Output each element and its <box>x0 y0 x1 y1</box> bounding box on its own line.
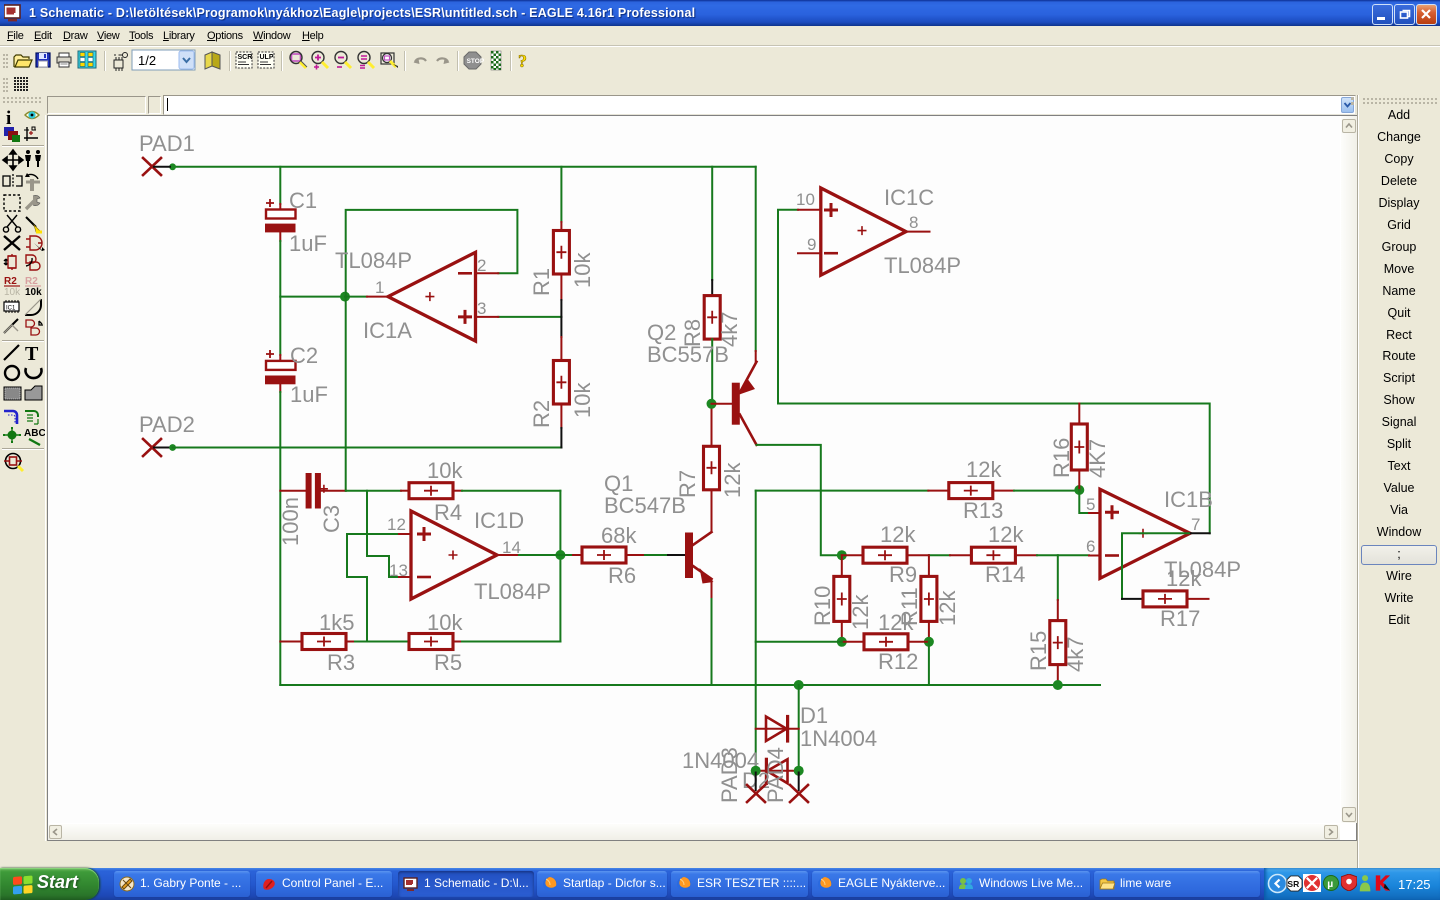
svg-text:3: 3 <box>477 299 486 318</box>
svg-text:12k: 12k <box>988 522 1024 547</box>
resistor R2 <box>529 361 595 429</box>
wire pin3 net to R1/R2 <box>477 316 562 318</box>
svg-text:R16: R16 <box>1049 438 1074 478</box>
op-amp IC1B (points right) <box>1086 487 1241 582</box>
wire Q1 emitter to bottom rail <box>711 579 713 685</box>
svg-text:µ: µ <box>1327 879 1333 890</box>
wire Q2 emitter drop from top rail <box>755 167 757 362</box>
wire R15 top lead <box>1057 555 1059 620</box>
row12: wire / text <box>4 345 19 360</box>
node D1 top junction <box>794 680 804 690</box>
row7: delete / add <box>4 236 20 250</box>
op-amp IC1A (points left) <box>335 248 486 343</box>
wire R8 bottom to junction <box>711 339 713 404</box>
op-amp IC1C (points right) <box>796 185 961 278</box>
zoom in <box>312 52 328 70</box>
svg-text:R5: R5 <box>434 650 462 675</box>
wire pin1 stub <box>345 296 387 298</box>
open folder <box>14 55 32 67</box>
CAM film <box>78 51 96 68</box>
wire pin1 node down to C3 row <box>345 297 347 491</box>
wire IC1A pin1 node horizontal <box>280 296 344 298</box>
save floppy <box>36 53 50 67</box>
svg-text:10k: 10k <box>570 382 595 418</box>
svg-text:R2: R2 <box>529 400 554 428</box>
printer <box>57 53 71 67</box>
checkered flag <box>491 51 501 70</box>
wire R16 bottom to junction <box>1078 470 1080 490</box>
node D2 left junction <box>751 766 761 776</box>
wire R13 right to R16 junction <box>993 490 1080 492</box>
svg-text:R15: R15 <box>1026 631 1051 671</box>
wire C1 bottom to C2 top <box>279 232 281 361</box>
PAD4 <box>763 747 808 803</box>
PAD1 <box>139 131 195 175</box>
wire PAD2 to R2 bottom <box>173 447 562 449</box>
capacitor C3 <box>278 473 346 546</box>
svg-text:R10: R10 <box>810 586 835 626</box>
svg-text:10: 10 <box>796 190 815 209</box>
svg-text:IC1C: IC1C <box>884 185 934 210</box>
svg-text:13: 13 <box>389 561 408 580</box>
svg-text:1: 1 <box>375 278 384 297</box>
wire R11/R12 node to bottom rail <box>928 642 930 685</box>
wire R12 left node to R13 drop <box>756 641 842 643</box>
row1: info / show <box>6 108 11 129</box>
svg-text:R17: R17 <box>1160 606 1200 631</box>
SCR icon <box>236 52 252 68</box>
wire D1 right vertical <box>798 685 800 771</box>
svg-text:7: 7 <box>1191 515 1200 534</box>
transistor Q1 BC547B <box>604 471 714 584</box>
stop sign <box>464 52 485 69</box>
wire C1 top lead from rail <box>279 167 281 210</box>
wire pin14 output <box>497 554 560 556</box>
node R12 left junction <box>837 637 847 647</box>
sep <box>229 51 230 71</box>
resistor R17 <box>1143 566 1209 631</box>
wire junction to pin5 <box>1079 490 1099 513</box>
resistor R5 <box>409 610 463 675</box>
undo <box>414 58 427 64</box>
scrollbars <box>1341 116 1357 823</box>
resistor R3 <box>280 610 355 675</box>
node R12 right junction <box>924 637 934 647</box>
wire IC1C pin10 long net <box>778 210 1210 534</box>
row4: mirror / rotate <box>3 174 22 188</box>
svg-text:4k7: 4k7 <box>1063 637 1088 672</box>
capacitor C1 <box>265 188 327 256</box>
zoom select <box>381 53 398 68</box>
op-amp IC1D (points right) <box>387 508 551 604</box>
node R9/R10 junction <box>837 550 847 560</box>
node IC1D output junction <box>555 550 565 560</box>
svg-text:C1: C1 <box>289 188 317 213</box>
svg-text:12k: 12k <box>966 457 1002 482</box>
wire R8 top lead from rail <box>711 167 713 296</box>
sep <box>281 51 282 71</box>
sep <box>457 51 458 71</box>
svg-text:1k5: 1k5 <box>319 610 354 635</box>
board icon <box>114 53 128 72</box>
resistor R10 <box>810 555 873 642</box>
svg-text:1uF: 1uF <box>290 382 328 407</box>
resistor R12 <box>842 610 929 674</box>
node R15 rail junction <box>1053 680 1063 690</box>
wire bottom rail <box>280 684 1100 686</box>
wire pin2 stub <box>477 272 499 274</box>
capacitor C2 <box>265 343 328 407</box>
sep <box>510 51 511 71</box>
svg-text:TL084P: TL084P <box>884 253 961 278</box>
svg-text:10k: 10k <box>570 252 595 288</box>
svg-text:R14: R14 <box>985 562 1025 587</box>
resistor R4 <box>409 458 463 525</box>
svg-text:PAD3: PAD3 <box>717 747 742 803</box>
diode D2 1N4004 <box>682 748 799 793</box>
svg-text:1N4004: 1N4004 <box>800 726 877 751</box>
svg-text:12k: 12k <box>1166 566 1202 591</box>
wire output node vertical <box>559 491 561 642</box>
node Q2 base junction <box>707 399 717 409</box>
resistor R6 <box>560 523 637 588</box>
svg-text:IC1B: IC1B <box>1164 487 1213 512</box>
wire R13 left drop (vertical through rail to D2) <box>755 491 757 771</box>
diode D1 1N4004 <box>756 703 877 751</box>
resistor R13 <box>949 457 1004 523</box>
wire R1 bottom to pin3 net <box>560 274 562 317</box>
svg-text:SR: SR <box>1287 879 1299 889</box>
svg-text:R12: R12 <box>878 649 918 674</box>
svg-text:12k: 12k <box>878 610 914 635</box>
svg-text:R3: R3 <box>327 650 355 675</box>
svg-text:IC1A: IC1A <box>363 318 412 343</box>
wire PAD1 top rail <box>173 166 756 168</box>
start button <box>0 868 99 900</box>
sep <box>404 51 405 71</box>
wire R1 top lead from rail <box>560 167 562 231</box>
row15: bus / net <box>4 411 17 424</box>
wire C2 bottom down left rail to bottom rail <box>279 384 281 685</box>
sep <box>2 340 44 341</box>
library book <box>205 52 220 69</box>
svg-text:PAD4: PAD4 <box>763 747 788 803</box>
second toolbar row: grid icon <box>0 76 1440 95</box>
svg-text:68k: 68k <box>601 523 637 548</box>
svg-text:5: 5 <box>1086 495 1095 514</box>
row2: display / mark <box>4 127 20 142</box>
svg-text:C3: C3 <box>319 505 344 533</box>
wire IC1A feedback loop <box>346 210 518 297</box>
wire R2 top lead <box>560 317 562 361</box>
svg-text:IC1D: IC1D <box>474 508 524 533</box>
zoom redraw <box>358 52 374 69</box>
svg-text:6: 6 <box>1086 537 1095 556</box>
svg-text:1uF: 1uF <box>289 231 327 256</box>
wire R4 right to output node <box>453 490 560 492</box>
wire output to R17 left <box>1122 533 1189 599</box>
svg-text:TL084P: TL084P <box>335 248 412 273</box>
node D2 right junction <box>794 766 804 776</box>
wire R16 top lead <box>1078 404 1080 425</box>
svg-text:D1: D1 <box>800 703 828 728</box>
svg-text:10k: 10k <box>427 610 463 635</box>
node PAD1 junction <box>169 163 176 170</box>
svg-text:12k: 12k <box>848 594 873 630</box>
resistor R15 <box>1026 621 1088 672</box>
sep <box>2 145 44 146</box>
redo <box>437 58 450 64</box>
wire Q2 collector net to R9/R10 <box>757 445 842 555</box>
zoom fit <box>290 52 307 69</box>
sep <box>2 448 44 449</box>
tray <box>1264 868 1440 900</box>
row13: circle / arc <box>5 366 19 380</box>
svg-text:9: 9 <box>807 235 816 254</box>
transistor Q2 BC557B <box>647 320 757 445</box>
resistor R8 <box>680 296 742 347</box>
help ? <box>518 51 527 71</box>
resistor R11 <box>897 555 960 642</box>
svg-text:8: 8 <box>909 213 918 232</box>
svg-text:R6: R6 <box>608 563 636 588</box>
node R16 junction <box>1074 485 1084 495</box>
left toolbar right edge <box>45 115 46 841</box>
svg-text:12k: 12k <box>720 462 745 498</box>
svg-text:C2: C2 <box>290 343 318 368</box>
wire R15 bottom to rail <box>1057 665 1059 685</box>
resistor R7 <box>675 446 745 498</box>
svg-text:R4: R4 <box>434 500 462 525</box>
wire R2 bottom to PAD2 net <box>560 404 562 448</box>
PAD2 <box>139 412 195 456</box>
wire R5 right to output vertical <box>453 641 560 643</box>
wire R14 right to pin6 <box>1015 554 1099 556</box>
svg-text:2: 2 <box>477 256 486 275</box>
svg-text:PAD2: PAD2 <box>139 412 195 437</box>
zoom out <box>335 52 351 69</box>
row17: erc <box>4 454 23 472</box>
svg-text:12: 12 <box>387 515 406 534</box>
row5: group / change <box>4 195 20 211</box>
wire R13 left horizontal <box>756 490 949 492</box>
PAD3 <box>717 747 765 803</box>
wire R3 to R5 <box>346 641 409 643</box>
svg-text:R13: R13 <box>963 498 1003 523</box>
row11: split / invoke <box>4 319 18 333</box>
svg-text:PAD1: PAD1 <box>139 131 195 156</box>
svg-text:R9: R9 <box>889 562 917 587</box>
resistor R9 <box>842 522 917 587</box>
svg-text:4K7: 4K7 <box>1085 439 1110 478</box>
svg-text:TL084P: TL084P <box>474 579 551 604</box>
sep <box>104 51 105 71</box>
row9: name / value <box>4 276 21 298</box>
wire pin12 staircase <box>347 534 410 642</box>
row6: cut / paste <box>3 215 20 232</box>
resistor R16 <box>1049 424 1110 478</box>
svg-text:BC557B: BC557B <box>647 342 729 367</box>
node IC1A pin1 junction <box>340 292 350 302</box>
row16: junction / label <box>3 427 21 443</box>
wire pin13 staircase <box>367 491 410 577</box>
svg-text:BC547B: BC547B <box>604 493 686 518</box>
grip <box>3 54 8 68</box>
svg-text:10k: 10k <box>427 458 463 483</box>
task buttons <box>114 871 250 897</box>
wire R9 right to R14 left <box>907 554 950 556</box>
row10: smash / miter <box>4 300 19 313</box>
wire R7 top to Q2 base junction <box>711 404 713 447</box>
row14: rect / polygon <box>4 387 21 400</box>
wire R6 to Q1 base <box>626 554 686 556</box>
row3: move / copy <box>3 150 23 170</box>
resistor R14 <box>950 522 1025 587</box>
ULP icon <box>258 52 274 68</box>
svg-text:12k: 12k <box>935 590 960 626</box>
svg-text:100n: 100n <box>278 497 303 546</box>
wire C3/R4 net <box>346 490 409 492</box>
resistor R1 <box>529 231 595 297</box>
wire Q1 collector to R7 <box>711 490 713 533</box>
svg-text:12k: 12k <box>880 522 916 547</box>
dropdown 1/2 <box>132 50 195 70</box>
svg-text:R1: R1 <box>529 268 554 296</box>
row8: pinswap / gateswap <box>4 254 16 270</box>
svg-text:R7: R7 <box>675 470 700 498</box>
